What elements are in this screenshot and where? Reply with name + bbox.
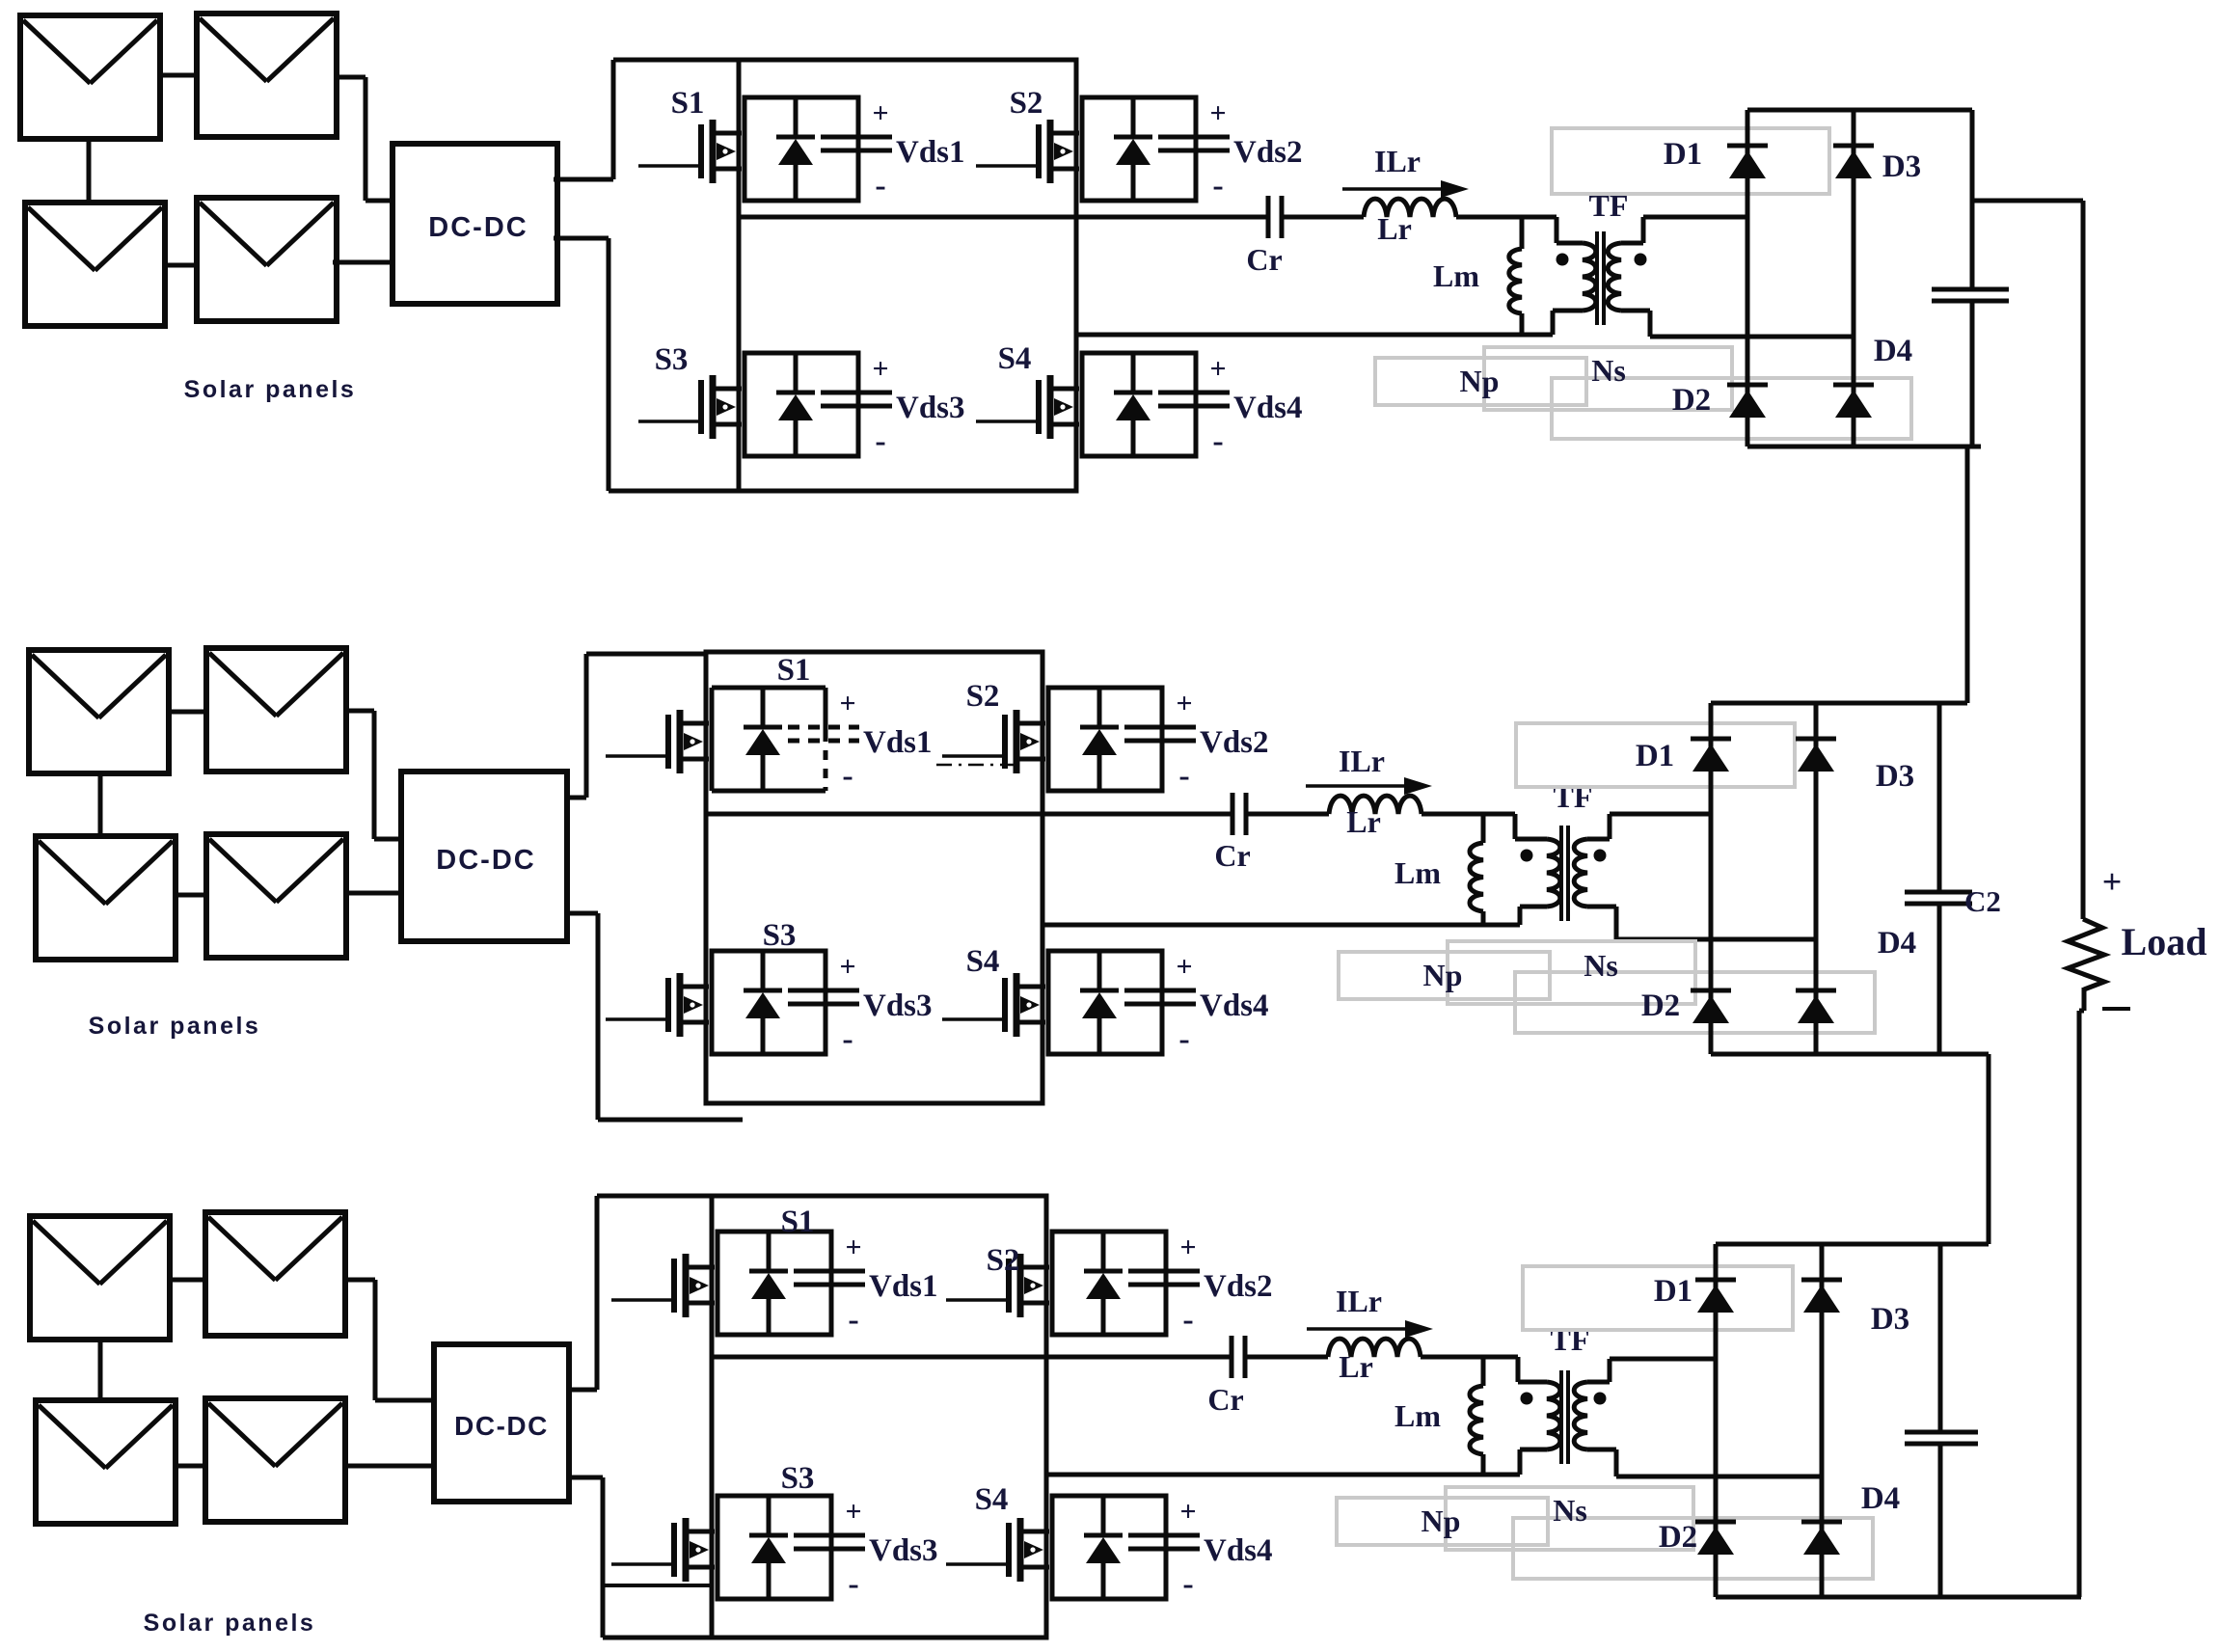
svg-text:Vds2: Vds2 [1200,725,1269,760]
svg-text:Vds1: Vds1 [896,135,965,170]
svg-text:S4: S4 [998,341,1032,376]
svg-text:+: + [845,1232,861,1263]
svg-text:Lm: Lm [1394,855,1441,890]
svg-text:-: - [1182,1566,1193,1602]
svg-text:ILr: ILr [1374,144,1421,178]
svg-text:Ns: Ns [1553,1493,1587,1528]
svg-text:+: + [839,951,855,983]
svg-text:D1: D1 [1654,1274,1692,1309]
svg-text:-: - [1212,423,1223,459]
svg-text:Cr: Cr [1207,1382,1243,1417]
svg-text:-: - [848,1566,858,1602]
svg-text:+: + [1209,353,1226,385]
svg-text:S3: S3 [655,342,689,377]
svg-text:Vds3: Vds3 [869,1533,938,1568]
svg-text:S4: S4 [975,1482,1009,1517]
svg-text:S4: S4 [966,944,1000,979]
svg-text:Cr: Cr [1246,242,1282,277]
svg-text:+: + [1176,688,1192,719]
svg-text:Np: Np [1460,364,1500,398]
svg-text:S1: S1 [781,1205,815,1239]
svg-text:DC-DC: DC-DC [454,1411,549,1441]
svg-text:Vds3: Vds3 [863,988,933,1023]
svg-text:C2: C2 [1964,884,2001,918]
svg-text:+: + [1179,1232,1196,1263]
svg-text:Lr: Lr [1377,211,1412,246]
svg-text:S2: S2 [1010,86,1043,121]
svg-text:Vds2: Vds2 [1233,135,1303,170]
svg-text:D2: D2 [1641,988,1680,1023]
svg-text:-: - [875,168,885,203]
svg-text:D4: D4 [1874,334,1912,368]
svg-text:ILr: ILr [1339,744,1385,778]
svg-text:D2: D2 [1659,1520,1697,1555]
svg-text:Vds4: Vds4 [1204,1533,1273,1568]
svg-text:-: - [875,423,885,459]
svg-text:+: + [1209,97,1226,129]
svg-text:Lm: Lm [1394,1398,1441,1433]
svg-text:+: + [1176,951,1192,983]
svg-text:+: + [1179,1496,1196,1528]
svg-text:-: - [842,758,853,794]
svg-text:Solar panels: Solar panels [144,1610,316,1637]
svg-text:+: + [2102,862,2123,901]
svg-text:S2: S2 [966,679,1000,714]
svg-text:Lr: Lr [1346,804,1381,839]
svg-text:D4: D4 [1878,926,1916,961]
svg-text:Ns: Ns [1584,948,1618,983]
svg-text:-: - [1182,1302,1193,1338]
svg-text:D2: D2 [1672,383,1711,418]
svg-text:DC-DC: DC-DC [428,212,528,243]
svg-text:+: + [845,1496,861,1528]
svg-text:Cr: Cr [1214,838,1250,873]
svg-text:S1: S1 [671,86,705,121]
svg-text:Load: Load [2122,920,2207,963]
svg-text:+: + [872,97,888,129]
svg-text:Lr: Lr [1339,1349,1373,1384]
svg-text:D4: D4 [1861,1481,1900,1516]
svg-text:Np: Np [1423,958,1463,992]
svg-text:Ns: Ns [1591,353,1626,388]
svg-text:-: - [1178,1021,1189,1057]
svg-text:Vds2: Vds2 [1204,1269,1273,1304]
svg-text:DC-DC: DC-DC [436,845,535,876]
svg-text:+: + [839,688,855,719]
svg-text:-: - [1212,168,1223,203]
svg-text:-: - [1178,758,1189,794]
svg-text:-: - [848,1302,858,1338]
svg-text:Solar panels: Solar panels [184,376,357,403]
svg-text:D3: D3 [1871,1302,1909,1337]
svg-text:Vds4: Vds4 [1233,391,1303,425]
svg-text:TF: TF [1554,779,1593,814]
svg-text:Np: Np [1421,1503,1461,1538]
svg-text:ILr: ILr [1336,1284,1382,1318]
svg-text:Solar panels: Solar panels [89,1013,261,1040]
svg-text:Vds3: Vds3 [896,391,965,425]
svg-text:S3: S3 [781,1461,815,1496]
svg-text:S2: S2 [987,1243,1020,1278]
svg-text:Lm: Lm [1433,258,1479,293]
svg-text:-: - [842,1021,853,1057]
svg-text:S1: S1 [777,653,811,688]
svg-text:Vds1: Vds1 [863,725,933,760]
svg-text:D1: D1 [1664,137,1702,172]
svg-text:D3: D3 [1882,149,1921,184]
svg-text:+: + [872,353,888,385]
svg-text:Vds4: Vds4 [1200,988,1269,1023]
svg-text:D1: D1 [1636,739,1674,773]
svg-text:S3: S3 [763,918,797,953]
svg-text:TF: TF [1551,1322,1590,1357]
svg-text:Vds1: Vds1 [869,1269,938,1304]
svg-text:D3: D3 [1876,759,1914,794]
